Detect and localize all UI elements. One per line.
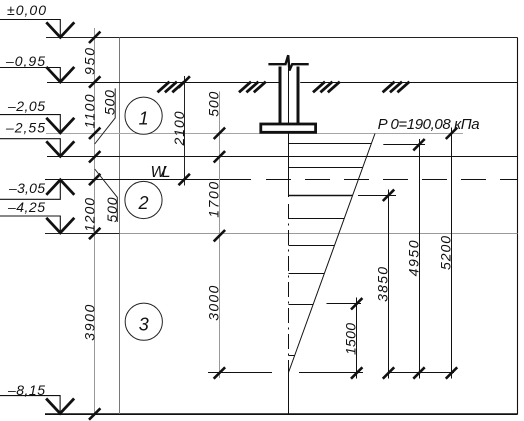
dimension 4950 ticks — [413, 139, 424, 379]
label 500 upper leader shelf — [95, 88, 116, 144]
ground hatch group B — [239, 82, 266, 93]
svg-text:±0,00: ±0,00 — [7, 2, 46, 18]
node top line elevation 0.00 — [46, 37, 518, 39]
svg-text:–2,55: –2,55 — [5, 120, 45, 136]
soil layer circle 3 — [125, 303, 162, 340]
pressure diagram step line 4 — [289, 218, 345, 220]
dimension line 1500 — [356, 298, 358, 379]
svg-text:3900: 3900 — [82, 304, 98, 340]
elevation mark -2.05 — [0, 115, 74, 133]
svg-text:1: 1 — [139, 109, 149, 129]
elevation mark -4.25 — [0, 216, 74, 233]
node dimension chain 3 line x=219.4 — [219, 91, 221, 378]
ground hatch group A — [158, 82, 185, 93]
svg-text:–8,15: –8,15 — [7, 382, 45, 398]
pressure diagram step 3 extension to 3850 tick — [358, 195, 396, 197]
wire layer boundary -2.55 — [47, 156, 518, 158]
ground hatch group C — [313, 82, 340, 93]
node dimension chain 3 ticks — [214, 128, 225, 379]
soil layer circle 2 — [125, 181, 162, 218]
wire bottom line elevation -8.15 — [45, 413, 518, 415]
dimension 1500 ticks — [351, 298, 362, 379]
svg-text:500: 500 — [102, 90, 118, 115]
dimension 3850 ticks — [383, 190, 394, 379]
svg-text:1500: 1500 — [343, 323, 359, 355]
wire ground line -0.95 left part — [47, 82, 279, 84]
dimension line 4950 — [419, 139, 421, 379]
soil layer circle 1 — [125, 97, 162, 134]
svg-text:4950: 4950 — [406, 240, 422, 276]
svg-text:500: 500 — [206, 91, 222, 116]
svg-text:5200: 5200 — [438, 236, 454, 270]
elevation mark -2.55 — [0, 139, 74, 157]
column break symbol — [268, 55, 308, 70]
svg-text:500: 500 — [104, 197, 120, 222]
svg-text:–4,25: –4,25 — [7, 199, 45, 215]
pressure diagram step line 8 — [289, 355, 295, 357]
column Q left edge — [279, 67, 282, 124]
wire water level WL line -3.05 dashed part — [266, 179, 518, 181]
elevation mark +0.00 — [0, 20, 74, 38]
node dimension chain 2 ticks — [179, 76, 190, 185]
svg-text:1100: 1100 — [82, 94, 98, 128]
pressure diagram step line 5 — [289, 245, 335, 247]
wire column axis center line dash-dot middle — [288, 204, 290, 373]
dimension 5200 ticks — [446, 128, 457, 379]
svg-text:1700: 1700 — [206, 182, 222, 218]
wire layer boundary -4.25 gray part — [120, 233, 518, 235]
svg-text:1200: 1200 — [82, 198, 98, 232]
wire gray foundation base line -2.05 — [46, 133, 463, 135]
pressure diagram step line 2 — [289, 167, 363, 169]
elevation mark -3.05 inverted — [0, 180, 74, 200]
svg-text:WL: WL — [151, 164, 171, 181]
svg-text:P 0=190,08 кПа: P 0=190,08 кПа — [378, 116, 480, 133]
node dimension chain 1 ticks — [89, 32, 100, 420]
svg-text:–2,05: –2,05 — [7, 98, 45, 114]
column Q right edge — [297, 67, 300, 124]
pressure diagram step line 7 — [289, 304, 314, 306]
svg-text:3850: 3850 — [375, 267, 391, 302]
svg-text:–0,95: –0,95 — [5, 53, 45, 69]
ground hatch group D — [383, 82, 410, 93]
pressure diagram sloped boundary line — [289, 134, 376, 373]
wire soil block left edge — [119, 38, 121, 415]
node dimension chain 2 line x=184.2 — [184, 76, 186, 186]
pressure diagram step 1 extension to 4950 tick — [383, 144, 425, 146]
svg-text:3000: 3000 — [206, 285, 222, 320]
dimension line 5200 — [451, 128, 453, 379]
pressure diagram step line 1 — [289, 143, 372, 145]
svg-text:2: 2 — [137, 193, 148, 213]
dimension line 3850 — [388, 190, 390, 379]
label 500 lower leader shelf — [95, 169, 118, 222]
wire column axis center line upper solid — [288, 66, 290, 197]
svg-text:3: 3 — [139, 315, 149, 335]
footing foundation pad — [261, 124, 316, 132]
pressure diagram step 7 extension to 1500 tick — [327, 303, 362, 305]
wire water level WL line -3.05 solid part — [45, 179, 251, 181]
wire layer boundary -4.25 left part — [45, 233, 120, 235]
pressure diagram step line 6 — [289, 273, 325, 275]
pressure diagram step line 3 — [289, 195, 353, 197]
wire column axis center line lower solid — [288, 373, 290, 415]
wire ground line -0.95 right part — [300, 82, 517, 84]
elevation mark -8.15 — [0, 396, 74, 414]
svg-text:–3,05: –3,05 — [8, 180, 45, 196]
node dimension chain 1 line x=94.7 — [94, 28, 96, 414]
wire right frame — [517, 38, 519, 415]
elevation mark -0.95 — [0, 67, 74, 82]
svg-text:2100: 2100 — [171, 111, 187, 146]
svg-text:950: 950 — [82, 48, 98, 75]
wire compressible zone bottom dashed line — [208, 372, 463, 374]
